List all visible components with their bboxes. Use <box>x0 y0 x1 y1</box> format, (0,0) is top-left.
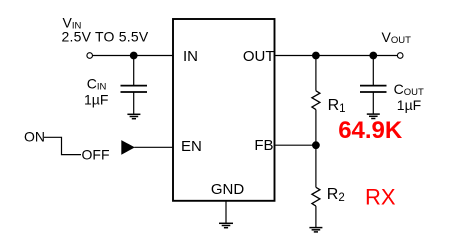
svg-text:2.5V TO 5.5V: 2.5V TO 5.5V <box>62 28 149 44</box>
wire OUT junction to R1 <box>315 56 317 91</box>
svg-text:OUT: OUT <box>243 48 275 65</box>
svg-text:OFF: OFF <box>82 146 110 162</box>
wire COUT junction down <box>372 56 374 86</box>
svg-text:IN: IN <box>183 48 198 65</box>
capacitor C_IN <box>121 86 148 92</box>
wire VIN terminal to IN pin <box>92 55 173 57</box>
wire R1 to FB junction <box>315 110 317 146</box>
node FB junction <box>312 141 320 149</box>
ground (below CIN) <box>127 114 140 118</box>
capacitor C_OUT <box>360 86 387 92</box>
svg-text:GND: GND <box>211 181 245 198</box>
svg-text:64.9K: 64.9K <box>338 117 403 144</box>
ground (below COUT) <box>367 114 380 118</box>
node input junction <box>130 52 138 60</box>
wire GND pin down <box>225 200 227 223</box>
resistor R1 <box>312 91 320 110</box>
svg-text:1µF: 1µF <box>84 92 108 108</box>
op-amp U1 (regulator IC body) <box>173 19 275 201</box>
wire FB pin to junction <box>275 144 316 146</box>
wire junction to CIN <box>133 56 135 86</box>
node VIN input terminal <box>87 53 93 59</box>
wire COUT to ground <box>372 92 374 114</box>
svg-text:1µF: 1µF <box>397 97 421 113</box>
node OUT junction (R1 top) <box>312 52 320 60</box>
transistor-style input arrow (EN buffer triangle) <box>122 141 135 155</box>
ground (below GND pin) <box>219 223 233 227</box>
wire ON step to OFF <box>44 137 81 154</box>
ground (below R2) <box>309 228 322 232</box>
wire triangle to EN pin <box>134 146 173 148</box>
wire FB junction to R2 <box>315 145 317 187</box>
wire OUT pin to VOUT terminal <box>275 55 397 57</box>
wire CIN to ground <box>133 92 135 114</box>
svg-text:ON: ON <box>24 129 45 145</box>
svg-text:FB: FB <box>254 137 273 154</box>
resistor R2 <box>312 187 320 206</box>
svg-text:EN: EN <box>181 138 202 155</box>
node COUT junction <box>369 52 377 60</box>
wire R2 to ground <box>315 206 317 227</box>
node VOUT output terminal <box>397 53 403 59</box>
svg-text:RX: RX <box>365 185 396 210</box>
